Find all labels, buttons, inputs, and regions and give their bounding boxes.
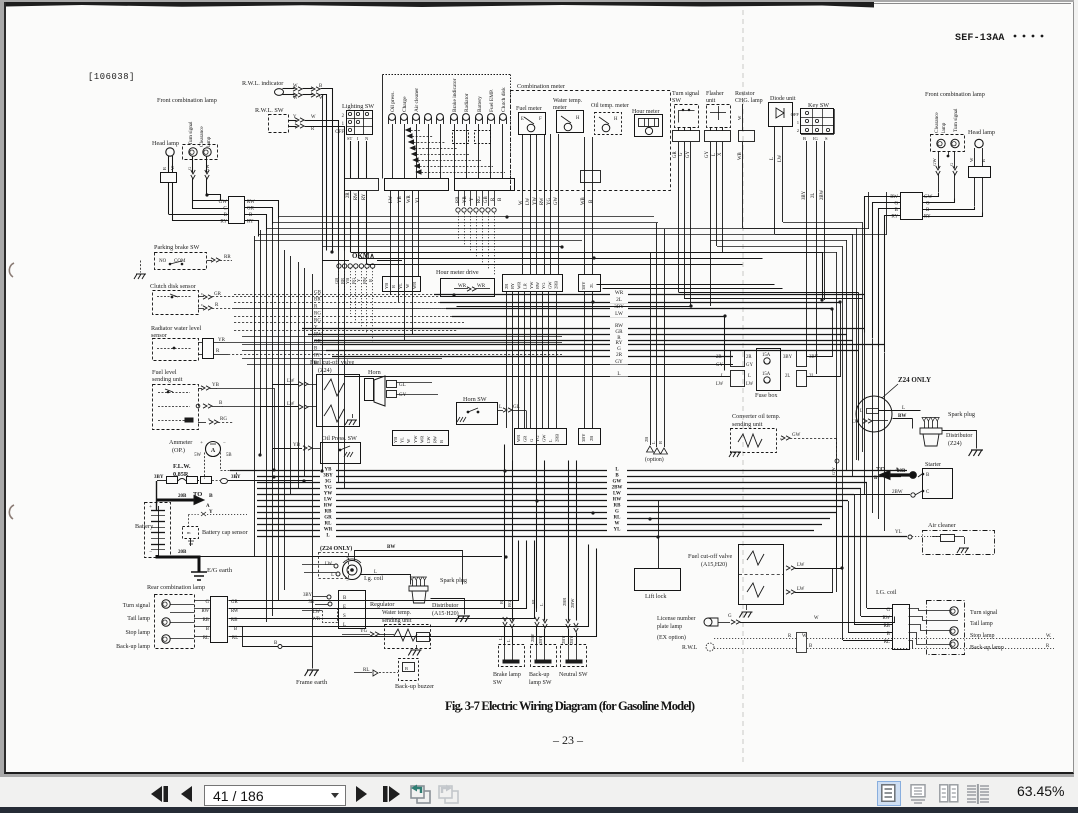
- scan edge top: [6, 2, 874, 8]
- diode unit: [769, 103, 793, 127]
- regulator box: [339, 591, 366, 629]
- svg-text:2BW: 2BW: [570, 598, 575, 608]
- svg-text:L: L: [539, 603, 544, 606]
- wires lamp to conn L: [194, 600, 211, 602]
- svg-text:LW: LW: [389, 195, 394, 203]
- fuse box right wires: [807, 309, 833, 357]
- svg-text:RL: RL: [531, 598, 536, 604]
- svg-text:Charge: Charge: [402, 96, 408, 112]
- svg-text:W: W: [293, 84, 298, 89]
- svg-text:L: L: [721, 374, 724, 379]
- svg-text:Horn: Horn: [368, 369, 381, 376]
- svg-text:2L: 2L: [811, 193, 816, 198]
- svg-text:RG: RG: [314, 312, 321, 317]
- svg-text:RL: RL: [325, 522, 333, 527]
- svg-text:lamp: lamp: [941, 122, 947, 133]
- svg-text:Stop lamp: Stop lamp: [970, 633, 995, 639]
- wire R head R: [982, 148, 984, 166]
- wire L coil: [304, 572, 336, 574]
- ground frame earth: [305, 670, 319, 676]
- svg-text:Neutral SW: Neutral SW: [559, 672, 588, 678]
- okm pins: [337, 264, 341, 268]
- svg-text:Battery cap sensor: Battery cap sensor: [202, 529, 248, 536]
- resistor conn: [739, 131, 755, 142]
- svg-text:L: L: [499, 405, 502, 410]
- wire B out: [245, 215, 267, 231]
- wire YB fuel: [198, 388, 202, 390]
- wire S key: [824, 141, 826, 300]
- svg-text:RW: RW: [231, 609, 239, 614]
- ground parking brake: [134, 274, 146, 279]
- svg-text:W: W: [406, 438, 411, 443]
- hour meter: [635, 115, 663, 137]
- wire RL rear L: [229, 549, 597, 637]
- svg-text:3BY: 3BY: [783, 355, 793, 360]
- wire W indicator top: [283, 88, 295, 90]
- svg-text:B: B: [319, 84, 322, 89]
- svg-text:BR: BR: [314, 298, 321, 303]
- wire GW into connR: [923, 193, 939, 197]
- rear stop lamp R: [950, 627, 958, 635]
- svg-text:Turn signal: Turn signal: [953, 108, 959, 132]
- flasher conn: [705, 131, 731, 142]
- fusible link wire2: [197, 480, 201, 482]
- battery box: [145, 503, 171, 558]
- wire GW clearance: [206, 157, 208, 173]
- wire L coil out: [361, 575, 411, 585]
- svg-text:R: R: [658, 441, 663, 444]
- svg-text:Brake lamp: Brake lamp: [493, 672, 521, 678]
- radiator water level sensor: [153, 339, 199, 361]
- next view icon (disabled): [437, 783, 460, 805]
- svg-text:2BR: 2BR: [562, 598, 567, 606]
- svg-text:15A: 15A: [762, 372, 771, 377]
- wires conn to lamps R: [909, 609, 927, 611]
- svg-text:Fig. 3-7 Electric Wiring Diag: Fig. 3-7 Electric Wiring Diagram (for Ga…: [445, 699, 695, 713]
- svg-text:YG: YG: [547, 198, 552, 205]
- wire horn GL: [396, 382, 432, 384]
- svg-text:Horn SW: Horn SW: [463, 396, 487, 403]
- svg-text:20B: 20B: [178, 494, 187, 499]
- svg-text:Parking brake SW: Parking brake SW: [154, 244, 200, 251]
- svg-text:RW: RW: [890, 195, 898, 200]
- svg-text:GR: GR: [324, 516, 332, 521]
- svg-text:E: E: [343, 605, 346, 610]
- hour meter drive box: [441, 279, 495, 297]
- svg-text:3G: 3G: [325, 480, 332, 485]
- wire G bend R: [873, 203, 901, 339]
- svg-text:sensor: sensor: [151, 332, 167, 339]
- svg-text:Fuel EMP.: Fuel EMP.: [489, 89, 495, 112]
- wire GR turnsig: [678, 127, 680, 131]
- svg-text:YB: YB: [293, 443, 301, 448]
- rear lamp conn R: [893, 605, 910, 650]
- clearance lamp R: [937, 139, 945, 147]
- wire LW to fusebox: [724, 317, 726, 371]
- svg-text:W: W: [615, 522, 620, 527]
- svg-text:LW: LW: [526, 197, 531, 205]
- svg-text:Clutch disk: Clutch disk: [501, 87, 507, 112]
- svg-text:WR: WR: [407, 194, 412, 203]
- wire R clutch: [198, 308, 204, 310]
- svg-text:WR: WR: [312, 617, 321, 622]
- turn signal conn: [673, 131, 700, 142]
- svg-text:B: B: [926, 473, 930, 478]
- wire RW bend R: [865, 197, 901, 333]
- neutral SW: [561, 645, 587, 667]
- svg-text:Water temp.: Water temp.: [553, 98, 583, 104]
- svg-text:H: H: [576, 116, 580, 121]
- wire neutral sw 1: [568, 461, 570, 621]
- wire GY flasher: [710, 127, 712, 131]
- wire L diode: [774, 126, 776, 234]
- back-up buzzer: [399, 659, 419, 681]
- svg-text:YW: YW: [529, 281, 534, 289]
- wire starter B: [918, 474, 922, 477]
- option arrowheads: [647, 446, 668, 454]
- svg-text:S: S: [343, 614, 346, 619]
- svg-text:WR: WR: [516, 435, 521, 442]
- svg-text:2BY: 2BY: [538, 635, 543, 644]
- solid sensor bus: [242, 336, 562, 338]
- svg-text:20B: 20B: [897, 469, 906, 474]
- svg-text:B: B: [224, 213, 228, 218]
- svg-text:plate lamp: plate lamp: [657, 624, 682, 630]
- front comb lamp housing R: [931, 135, 965, 152]
- wire lift lock: [658, 500, 660, 568]
- svg-text:Back-up: Back-up: [529, 672, 549, 678]
- wire RY into conn: [173, 220, 229, 222]
- svg-text:Distributor: Distributor: [946, 433, 972, 439]
- right margin verticals: [846, 334, 848, 470]
- flasher unit: [707, 105, 731, 128]
- svg-text:LW: LW: [778, 154, 783, 162]
- R.W.L. SW body: [269, 115, 289, 133]
- svg-text:3BY: 3BY: [323, 474, 333, 479]
- svg-text:YR: YR: [463, 196, 468, 203]
- fuse box conn 1: [731, 351, 745, 367]
- svg-text:GR: GR: [673, 151, 678, 158]
- svg-text:YL: YL: [614, 528, 622, 533]
- svg-text:LW: LW: [287, 379, 295, 384]
- svg-text:F: F: [539, 117, 542, 122]
- wire backup sw 1: [536, 445, 538, 609]
- svg-text:RW: RW: [535, 281, 540, 289]
- svg-text:3BY: 3BY: [802, 190, 807, 200]
- ground water temp: [408, 650, 421, 656]
- svg-text:2BW: 2BW: [612, 486, 623, 491]
- svg-text:Frame earth: Frame earth: [296, 679, 328, 686]
- svg-text:B: B: [926, 208, 930, 213]
- svg-text:W: W: [293, 96, 298, 101]
- rear lamp conn L: [211, 597, 228, 643]
- cross harness upper: [278, 216, 654, 218]
- svg-text:2RB: 2RB: [554, 281, 559, 289]
- warning lamp connector bar 1: [385, 179, 449, 191]
- svg-text:GW: GW: [792, 433, 801, 438]
- wire RG fuel: [198, 422, 206, 424]
- svg-text:I.g. coil: I.g. coil: [364, 575, 383, 582]
- single page layout icon (selected): [877, 781, 901, 806]
- connector oval 3BY: [221, 478, 228, 483]
- vertical GR to rear: [858, 293, 860, 461]
- right connector C2: [393, 431, 449, 446]
- svg-text:Starter: Starter: [925, 462, 941, 468]
- okm pin dotted wires: [338, 268, 340, 300]
- page input: [204, 785, 346, 806]
- two page scroll icon: [966, 784, 990, 804]
- svg-text:Brake indicator: Brake indicator: [452, 78, 458, 112]
- diode box 1: [453, 131, 469, 144]
- wire RW out: [245, 201, 279, 219]
- svg-text:RB: RB: [325, 510, 333, 515]
- svg-text:RR: RR: [224, 255, 231, 260]
- svg-text:+: +: [149, 504, 152, 510]
- svg-text:WR: WR: [419, 436, 424, 443]
- center connector B: [579, 275, 601, 292]
- svg-text:LW: LW: [746, 382, 754, 387]
- svg-text:2: 2: [797, 128, 800, 133]
- svg-text:Oil Press. SW: Oil Press. SW: [322, 435, 357, 442]
- fuse box conn 2: [731, 371, 745, 387]
- ground air cleaner: [957, 548, 969, 553]
- vertical center B down: [584, 291, 586, 428]
- svg-text:Y: Y: [293, 115, 297, 120]
- svg-text:G: G: [187, 166, 192, 170]
- junction clearance: [205, 193, 208, 196]
- parking brake SW: [155, 253, 207, 270]
- wire 2R cross: [351, 253, 823, 301]
- svg-text:Flasher: Flasher: [706, 91, 724, 97]
- svg-text:License number: License number: [657, 616, 695, 622]
- clutch disk sensor: [153, 291, 199, 315]
- fuel cutoff valve Z24: [317, 375, 360, 427]
- svg-text:Y: Y: [356, 278, 361, 282]
- svg-text:2RB: 2RB: [554, 434, 559, 442]
- wire G into conn: [193, 201, 229, 209]
- wires option: [650, 252, 652, 445]
- svg-text:LR: LR: [523, 283, 528, 289]
- wire W rwl sw: [311, 121, 339, 251]
- svg-text:B: B: [274, 641, 278, 646]
- svg-text:B: B: [809, 644, 812, 649]
- svg-text:R: R: [311, 127, 315, 132]
- svg-text:−: −: [149, 549, 152, 555]
- rear tail lamp R: [927, 620, 958, 622]
- svg-text:2L: 2L: [785, 374, 790, 379]
- svg-text:YB: YB: [393, 437, 398, 443]
- svg-text:Fuse box: Fuse box: [755, 392, 778, 399]
- svg-text:H: H: [614, 117, 618, 122]
- wire W head R: [974, 148, 976, 166]
- svg-text:G: G: [529, 438, 534, 442]
- hour meter wires: [584, 137, 586, 275]
- svg-text:(A15·H20): (A15·H20): [432, 610, 459, 617]
- two page icon: [939, 784, 959, 803]
- wire LW diode: [782, 126, 784, 222]
- rear tail lamp L: [170, 612, 194, 614]
- wires into conn R: [867, 608, 892, 610]
- fusible link arc: [178, 479, 186, 482]
- svg-text:B: B: [249, 213, 253, 218]
- svg-text:GW: GW: [932, 158, 937, 166]
- svg-text:W: W: [405, 283, 410, 288]
- wire G turn signal: [192, 157, 194, 173]
- svg-text:Back-up lamp: Back-up lamp: [116, 644, 150, 650]
- bus group C (12 main harness lines): [230, 470, 907, 472]
- svg-text:LW: LW: [324, 498, 332, 503]
- svg-text:B: B: [209, 493, 213, 499]
- combination meter outline: [511, 91, 671, 191]
- svg-text:(OP.): (OP.): [172, 447, 185, 454]
- svg-text:2B: 2B: [644, 437, 649, 442]
- bus group A (WR 2L 3BY LW): [434, 294, 864, 296]
- brake lamp SW: [499, 645, 525, 667]
- svg-text:RG: RG: [477, 196, 482, 203]
- radiator sensor connector: [203, 339, 214, 359]
- svg-text:– 23 –: – 23 –: [552, 733, 584, 747]
- svg-text:Tail lamp: Tail lamp: [970, 621, 993, 627]
- svg-text:Diode unit: Diode unit: [770, 96, 796, 102]
- resistor block head lamp: [161, 173, 177, 183]
- svg-text:GW: GW: [542, 434, 547, 442]
- wire 3BY batt: [156, 481, 158, 499]
- wire water temp gnd: [416, 645, 418, 648]
- svg-text:R: R: [491, 197, 496, 201]
- svg-text:Distributor: Distributor: [432, 603, 458, 609]
- svg-text:G: G: [679, 152, 684, 156]
- wire G into connR: [923, 199, 955, 203]
- svg-text:WB: WB: [738, 152, 743, 160]
- bus group B (RW GR R RY G 2R): [302, 328, 865, 330]
- wire RY cross: [367, 264, 743, 266]
- svg-text:BW: BW: [898, 414, 906, 419]
- svg-text:YG: YG: [360, 629, 368, 634]
- oil temp meter: [595, 113, 622, 135]
- wire 20B bottom: [157, 555, 199, 572]
- svg-text:Air cleaner: Air cleaner: [928, 522, 956, 529]
- svg-text:W: W: [814, 616, 819, 621]
- svg-text:3BY: 3BY: [581, 281, 586, 290]
- center connector A: [503, 275, 563, 292]
- left margin mark 1: [9, 263, 14, 277]
- svg-text:IG: IG: [813, 136, 819, 141]
- svg-text:YW: YW: [324, 492, 333, 497]
- svg-text:Head lamp: Head lamp: [968, 129, 995, 136]
- svg-text:W: W: [969, 157, 974, 162]
- svg-text:Air cleaner: Air cleaner: [414, 88, 420, 112]
- svg-text:RB: RB: [614, 504, 622, 509]
- svg-text:YL: YL: [895, 530, 902, 535]
- svg-text:RG: RG: [507, 600, 512, 607]
- head lamp R: [975, 139, 983, 147]
- fuse box body: [757, 349, 781, 391]
- svg-text:WR: WR: [615, 290, 624, 296]
- svg-text:A: A: [211, 448, 216, 454]
- fuel level sending unit: [153, 385, 199, 430]
- svg-text:GW: GW: [613, 480, 622, 485]
- svg-text:Clutch disk sensor: Clutch disk sensor: [150, 283, 196, 290]
- wire IG key: [816, 141, 818, 374]
- svg-text:−: −: [223, 441, 226, 446]
- svg-text:Back-up buzzer: Back-up buzzer: [395, 683, 434, 690]
- wire brake sw L2: [512, 461, 514, 621]
- svg-text:Ammeter: Ammeter: [169, 439, 192, 446]
- svg-text:B: B: [234, 627, 237, 632]
- svg-text:1: 1: [797, 120, 800, 125]
- water temp sending unit: [385, 625, 431, 649]
- ammeter dashed leads: [204, 453, 206, 479]
- wire BW coil: [355, 551, 463, 585]
- svg-text:Converter oil temp.: Converter oil temp.: [732, 413, 781, 420]
- rear backup lamp L: [162, 635, 170, 643]
- svg-text:GY: GY: [686, 151, 691, 158]
- svg-text:(option): (option): [645, 456, 664, 463]
- svg-text:GL: GL: [399, 383, 406, 388]
- wire GR rear L: [229, 541, 519, 601]
- svg-text:C: C: [926, 490, 930, 495]
- svg-text:I.G. coil: I.G. coil: [876, 589, 897, 596]
- svg-text:YB: YB: [325, 468, 333, 473]
- svg-text:GW: GW: [831, 467, 836, 475]
- vertical bundle right of center: [836, 252, 838, 568]
- svg-text:E/G earth: E/G earth: [207, 567, 233, 574]
- svg-text:GB: GB: [314, 291, 322, 296]
- svg-text:B: B: [439, 440, 444, 443]
- svg-text:Resistor: Resistor: [735, 91, 755, 97]
- svg-text:WB: WB: [581, 197, 586, 205]
- svg-text:LW: LW: [615, 311, 623, 317]
- svg-text:Lighting SW: Lighting SW: [342, 103, 374, 110]
- svg-text:c: c: [201, 302, 203, 307]
- wire neutral sw 2: [576, 461, 578, 621]
- wire RR parking: [207, 260, 212, 262]
- svg-text:SW: SW: [672, 98, 681, 104]
- svg-text:R: R: [391, 285, 396, 288]
- turn signal SW: [675, 105, 699, 128]
- svg-text:RG: RG: [220, 417, 227, 422]
- head lamp (left): [166, 148, 174, 156]
- svg-text:Head lamp: Head lamp: [152, 140, 179, 147]
- svg-text:2R: 2R: [616, 352, 623, 358]
- svg-text:B: B: [803, 136, 806, 141]
- svg-text:3B: 3B: [308, 600, 314, 605]
- fuel cutoff outputs: [786, 566, 795, 570]
- wire W indicator bot: [283, 94, 295, 96]
- wire B fuel: [196, 404, 200, 408]
- svg-text:L: L: [548, 439, 553, 442]
- previous view icon: [409, 783, 432, 805]
- fusible link 2: [187, 477, 198, 484]
- svg-text:YW: YW: [533, 197, 538, 205]
- wire G rear R: [894, 617, 896, 623]
- svg-text:R.W.L. SW: R.W.L. SW: [255, 107, 284, 114]
- wire Y rwl sw: [289, 120, 297, 122]
- svg-text:Turn signal: Turn signal: [970, 610, 998, 616]
- front combination lamp housing (left): [183, 145, 218, 160]
- svg-text:Lift lock: Lift lock: [645, 593, 667, 600]
- vertical bundle RWL: [322, 95, 324, 471]
- svg-text:GW: GW: [554, 197, 559, 205]
- svg-text:Battery: Battery: [477, 96, 483, 112]
- svg-text:A: A: [206, 504, 210, 509]
- svg-text:L: L: [506, 639, 511, 642]
- svg-text:R.W.L: R.W.L: [682, 645, 698, 651]
- wire WB resistor: [742, 142, 744, 228]
- starter box: [923, 469, 953, 499]
- fuel cutoff valve A15: [739, 545, 784, 605]
- svg-text:Water temp.: Water temp.: [382, 610, 412, 616]
